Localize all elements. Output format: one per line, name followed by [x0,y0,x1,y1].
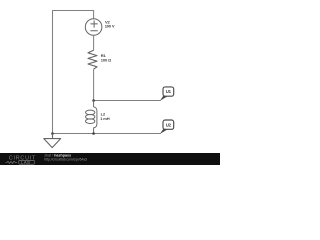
label L2 1 mH [100,112,109,121]
flag pointer U1 [160,96,168,101]
label V2 100 V [105,19,115,28]
svg-text:1 mH: 1 mH [100,116,109,121]
inductor L2 [86,101,97,134]
wire: V2 bottom to R1 top [93,35,95,50]
ground [44,134,61,148]
svg-text:U1: U1 [166,89,172,94]
footer bar [0,153,220,165]
flag pointer U2 [160,129,168,134]
svg-text:http://circuitlab.com/c/pv54a3: http://circuitlab.com/c/pv54a3 [44,157,87,161]
voltage source V2 [85,19,102,36]
junction at ground [51,132,54,135]
wire: bottom rail (ground node to U2 flag) [53,133,161,135]
label R1 100 ohm [101,53,112,63]
junction node A [92,99,95,102]
svg-text:LAB: LAB [21,160,31,164]
svg-text:100 Ω: 100 Ω [101,57,112,62]
wire: left loop (left vertical + top horizontal + drop into V2 top) [53,11,94,134]
flag U2 [163,120,174,129]
wire: R1 bottom to node A [93,69,95,100]
logo LAB box [19,160,35,164]
svg-text:U2: U2 [166,122,172,127]
logo resistor zigzag [6,161,18,163]
junction at L2 bottom [92,132,95,135]
flag U1 [163,87,174,96]
wire: node A to U1 flag [94,100,161,102]
svg-text:100 V: 100 V [105,24,115,29]
resistor R1 [88,50,97,69]
